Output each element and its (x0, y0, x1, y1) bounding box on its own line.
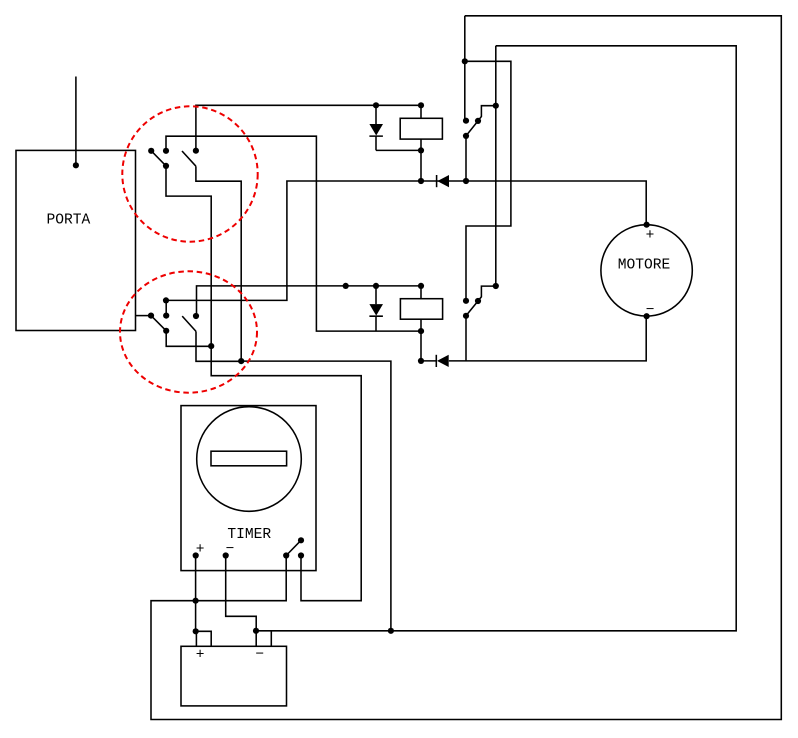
svg-text:+: + (196, 647, 205, 663)
node S2a top (163, 297, 169, 303)
node K2 contacts (463, 298, 469, 304)
wire W2: battery minus rail, right riser, top rail (271, 46, 736, 631)
wire S1a middle contact to relay K2 bottom (166, 136, 421, 331)
battery B1 (181, 631, 287, 706)
node relay K1 top (373, 102, 379, 108)
node K1 contacts (463, 118, 469, 124)
node relay K2 cap (418, 328, 424, 334)
wire motor minus right segment (421, 316, 646, 361)
node S2a contacts (148, 313, 154, 319)
node motor plus (644, 222, 650, 228)
node blades junction (208, 343, 214, 349)
switch S3 (timer output contact) (286, 540, 301, 555)
wire S1b blade leg down (196, 166, 241, 361)
wire W1 branch to switch K2 fixed contact (465, 61, 511, 300)
timer U1 box (181, 406, 316, 571)
switch S1b (door switch upper right) (182, 151, 196, 166)
node motor minus (644, 313, 650, 319)
node battery minus tab (253, 628, 259, 634)
red highlight circle 2 (lower door switches) (120, 271, 257, 392)
node W2/motor-minus junction (388, 628, 394, 634)
switch S2a (door switch lower) (151, 316, 166, 331)
svg-text:PORTA: PORTA (47, 213, 91, 229)
diode D1 (flyback, relay K1) (369, 105, 421, 150)
switch K2 relay contact blade and jog (466, 286, 496, 316)
wire node M+: relay outputs to motor plus (166, 181, 646, 300)
wire K2 contact lower leg (465, 316, 467, 361)
svg-text:TIMER: TIMER (227, 527, 271, 543)
node timer terminals (193, 552, 199, 558)
PORTA box (door) (16, 150, 136, 330)
wire timer plus feed (195, 556, 197, 632)
wire W2 left drop to jog contacts (495, 46, 497, 286)
switch S2b (door switch lower right) (182, 316, 196, 331)
wire timer minus feed (226, 556, 257, 631)
node S1a contacts (148, 148, 154, 154)
diode D3 (series, upper) (437, 175, 449, 187)
wire W1: battery plus rail, bottom rail, right riser, top rail (151, 16, 781, 720)
node antenna/PORTA (73, 162, 79, 168)
wire S2a blade leg (166, 331, 211, 347)
wire motor minus to W2 junction (241, 361, 391, 631)
battery minus terminal tab (256, 631, 271, 647)
wire K1 contact lower leg (465, 136, 467, 181)
svg-text:MOTORE: MOTORE (618, 257, 671, 273)
diode D2 (flyback, relay K2) (369, 286, 383, 331)
wire S1a blade to timer trigger contact (166, 166, 361, 601)
node battery plus tab (193, 628, 199, 634)
red highlight circle 1 (upper door switches) (122, 106, 257, 241)
node S1b-leg/motor-minus junction (238, 358, 244, 364)
wire S2b fixed leg and relay K2 top wire (197, 286, 422, 316)
wire S2a middle leg (165, 300, 167, 315)
diode D4 (series, lower) (436, 355, 448, 367)
svg-text:−: − (255, 647, 264, 663)
node S1b fixed (193, 148, 199, 154)
wire S2b blade leg (196, 331, 241, 361)
wire W1 left drop to switch K1 fixed contact (464, 16, 466, 121)
wire antenna into PORTA (75, 77, 77, 166)
node wire y181 (418, 178, 424, 184)
motor M1 (601, 225, 692, 316)
node S2b fixed (193, 313, 199, 319)
node relay K2 top (343, 283, 349, 289)
relay coil K1 (400, 105, 442, 181)
node relay K2 bottom (418, 358, 424, 364)
node W1 branch (462, 58, 468, 64)
wire PORTA stub (136, 315, 152, 317)
switch K1 relay contact blade and jog (466, 106, 496, 136)
relay coil K2 (400, 286, 442, 361)
node relay K1 cap (418, 147, 424, 153)
switch S1a (door switch upper) (151, 151, 166, 166)
wire S1b fixed leg and relay K1 top wire (196, 105, 421, 150)
battery plus terminal tab (196, 631, 211, 646)
node plus rail junction (193, 598, 199, 604)
svg-text:+: + (646, 228, 655, 244)
